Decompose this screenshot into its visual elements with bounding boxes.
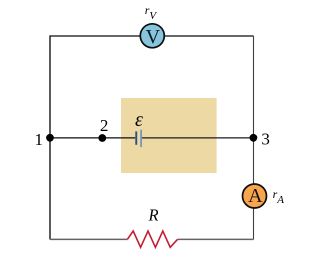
wire: right vertical upper segment	[253, 36, 255, 185]
resistor R	[127, 231, 177, 247]
svg-text:3: 3	[261, 129, 270, 148]
svg-text:2: 2	[100, 116, 109, 135]
battery cell positive plate	[140, 130, 142, 147]
node 3	[250, 134, 258, 142]
svg-text:rA: rA	[273, 187, 285, 206]
wire: bottom right lead from resistor	[178, 238, 254, 240]
voltmeter U1	[140, 24, 164, 48]
svg-text:1: 1	[34, 130, 43, 149]
svg-text:R: R	[148, 205, 159, 224]
wire: top right segment	[165, 35, 254, 37]
node 1	[46, 134, 54, 142]
svg-text:A: A	[248, 185, 263, 207]
wire: middle branch left of battery	[50, 137, 135, 139]
svg-text:ε: ε	[135, 109, 143, 131]
wire: middle branch right of battery	[142, 137, 254, 139]
svg-text:V: V	[146, 26, 161, 48]
shaded emf source region	[121, 98, 217, 173]
wire: bottom left lead to resistor	[50, 238, 128, 240]
wire: right vertical lower segment	[253, 208, 255, 239]
node 2	[98, 134, 106, 142]
wire: left vertical branch and top-left segment	[50, 36, 140, 239]
battery cell negative plate	[135, 131, 137, 144]
ammeter U2	[243, 184, 267, 208]
svg-text:rV: rV	[145, 3, 158, 22]
